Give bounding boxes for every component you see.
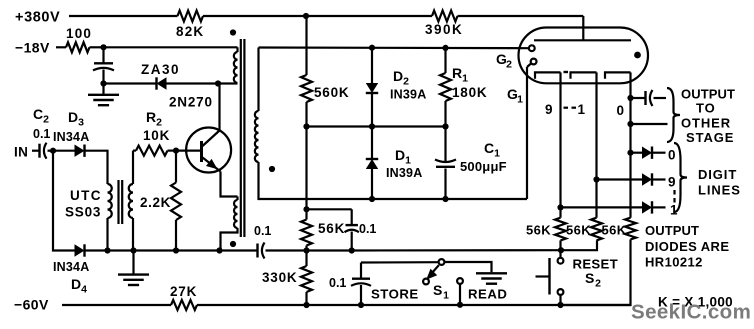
svg-text:LINES: LINES — [698, 183, 741, 198]
wire col0 seg3 — [629, 124, 631, 153]
wire 330K bottom lead — [305, 292, 307, 305]
svg-text:2: 2 — [403, 76, 409, 88]
core T1 line2 — [243, 39, 245, 237]
node digit1 junction — [557, 204, 563, 210]
svg-text:2: 2 — [156, 117, 162, 129]
svg-text:HR10212: HR10212 — [645, 255, 703, 270]
node cap/ground junction — [100, 80, 106, 86]
node 56K1 bus junction — [558, 247, 564, 253]
svg-text:1: 1 — [443, 290, 449, 302]
svg-text:D: D — [71, 276, 81, 292]
label coupling cap 0.1 — [254, 224, 271, 238]
wire node to winding — [218, 82, 238, 84]
label K equals — [658, 295, 733, 310]
wire 2.2K to bus — [175, 220, 177, 251]
wire block cap stem bottom — [351, 232, 353, 251]
svg-text:330K: 330K — [262, 270, 297, 285]
watermark SeekIC.com — [631, 301, 751, 324]
label digit 1 — [670, 203, 678, 218]
svg-text:2: 2 — [506, 59, 512, 71]
wire T1 emitter winding top — [236, 197, 238, 201]
label G2 — [496, 51, 512, 71]
label 56K#1 — [526, 223, 551, 238]
inductor UTC secondary — [129, 184, 133, 218]
cathode bracket 1 — [535, 72, 561, 78]
svg-text:R: R — [146, 109, 156, 125]
node -18V junction — [100, 44, 106, 50]
wire bus D4 to cap — [85, 249, 258, 251]
svg-text:100: 100 — [66, 26, 92, 41]
wire S1 to ground — [444, 262, 491, 272]
wire cap stem bottom — [102, 70, 104, 84]
label 180K — [452, 85, 487, 100]
wire output line2 — [631, 123, 668, 125]
wire cathode column 9 — [559, 72, 561, 207]
label cathode dashes — [564, 107, 577, 109]
node digit0 junction — [627, 150, 633, 156]
switch S2 actuator bar — [548, 258, 550, 295]
diode ZA30 — [157, 77, 167, 89]
svg-text:1: 1 — [462, 73, 468, 85]
resistor 330K — [301, 266, 312, 292]
wire -60V lead — [62, 304, 171, 306]
node collector junction — [215, 80, 221, 86]
svg-text:S: S — [585, 270, 594, 286]
wire T1 left-top winding lead — [236, 47, 238, 52]
wire 100 to node — [90, 46, 104, 48]
wire Q1 base lead — [176, 150, 202, 152]
wire anode lead — [582, 16, 584, 40]
label STAGE — [686, 130, 734, 145]
wire digit9 row right — [653, 178, 666, 180]
tube envelope — [519, 28, 649, 84]
svg-text:IN39A: IN39A — [390, 88, 426, 102]
phasing dot T1 top — [230, 29, 236, 35]
label 56K block value — [318, 221, 345, 236]
wire digit0 row — [631, 152, 643, 154]
label C2 value 0.1 — [33, 127, 50, 141]
label R2 — [146, 109, 162, 129]
svg-text:1: 1 — [578, 102, 586, 117]
svg-text:OTHER: OTHER — [681, 116, 731, 131]
wire collector up — [218, 84, 220, 131]
svg-text:2N270: 2N270 — [169, 95, 213, 110]
resistor 56K#3 — [625, 218, 636, 240]
node base junction — [173, 148, 179, 154]
wire ground2 stem — [132, 251, 134, 275]
diode D4 IN34A — [75, 244, 85, 256]
node D1 low-bus junction — [369, 196, 375, 202]
label cathode 0 — [617, 103, 625, 118]
node 330K -60V junction — [303, 302, 309, 308]
contact S1 pivot — [439, 259, 445, 265]
wire node to D3 — [53, 150, 75, 152]
capacitor C1 500uuF — [435, 160, 456, 167]
resistor 2.2K — [171, 183, 181, 221]
label 27K value — [170, 284, 197, 299]
svg-text:56K: 56K — [566, 223, 591, 238]
wire col0 to 56K3 — [629, 153, 631, 218]
svg-text:1: 1 — [405, 155, 411, 167]
wire 560K to bus — [305, 102, 307, 127]
resistor R2 10K — [136, 146, 168, 156]
wire mid bus — [307, 125, 446, 127]
label 100 value — [66, 26, 92, 41]
capacitor block 0.1 — [345, 225, 359, 232]
cathode bracket 3 — [605, 72, 631, 78]
label UTC — [70, 188, 102, 203]
label C1 value 500uuF — [460, 159, 507, 174]
wire col0 seg2 — [629, 98, 631, 124]
wire +380V rail — [69, 15, 178, 17]
wire input left column — [53, 151, 75, 251]
wire ground stem — [102, 84, 104, 95]
label digit 0 — [668, 148, 676, 163]
core UTC line1 — [117, 180, 119, 224]
node C1 low-bus junction — [442, 196, 448, 202]
wire block cap stem top — [351, 209, 353, 225]
resistor 56K block — [301, 220, 312, 246]
wire output cap lead — [631, 97, 646, 99]
wire low bus — [307, 198, 527, 200]
wire R1 to mid bus — [444, 101, 446, 127]
wire -60V rail — [197, 304, 631, 306]
node 560K mid-bus junction — [303, 123, 309, 129]
label C1 — [484, 140, 500, 160]
inductor T1 emitter winding — [234, 200, 237, 228]
wire cathode column 0 — [629, 72, 631, 98]
svg-text:R: R — [452, 65, 462, 81]
svg-text:0.1: 0.1 — [254, 224, 271, 238]
capacitor store 0.1 — [351, 279, 371, 286]
svg-text:OUTPUT: OUTPUT — [681, 87, 735, 102]
svg-text:D: D — [393, 68, 403, 84]
node reset -60V junction — [557, 302, 563, 308]
svg-text:+380V: +380V — [15, 10, 60, 26]
node input junction — [50, 148, 56, 154]
svg-text:56K: 56K — [318, 221, 345, 236]
capacitor output coupling — [646, 90, 653, 106]
wire T1 secondary bottom lead — [259, 162, 308, 199]
wire col1 to 56K2 — [595, 180, 597, 218]
contact S1 store — [423, 279, 429, 285]
svg-text:0.1: 0.1 — [359, 222, 376, 236]
cathode dash — [564, 71, 569, 73]
svg-text:82K: 82K — [176, 24, 204, 39]
wire D2 to mid bus — [371, 93, 373, 127]
node block cap bus junction — [349, 247, 355, 253]
diode digit1 — [642, 201, 652, 213]
label 560K value — [314, 85, 349, 100]
svg-text:C: C — [33, 106, 43, 122]
capacitor coupling 0.1 — [258, 243, 265, 259]
svg-text:0.1: 0.1 — [33, 127, 50, 141]
svg-text:STORE: STORE — [371, 287, 419, 302]
svg-text:2: 2 — [595, 278, 601, 290]
resistor 27K — [171, 300, 197, 310]
resistor R1 180K — [440, 73, 451, 101]
node UTC primary bus — [104, 247, 110, 253]
svg-text:IN: IN — [14, 145, 28, 160]
wire 560K top — [305, 16, 307, 75]
diode digit0 — [642, 147, 652, 159]
label S1 — [433, 282, 449, 302]
core UTC line2 — [121, 180, 123, 224]
label block cap 0.1 — [359, 222, 376, 236]
label D1 type IN39A — [386, 166, 422, 180]
label 56K#2 — [566, 223, 591, 238]
wire R2 right lead — [168, 150, 177, 152]
svg-text:STAGE: STAGE — [686, 130, 734, 145]
wire T1 secondary top lead — [257, 48, 259, 112]
svg-text:27K: 27K — [170, 284, 197, 299]
label READ — [468, 287, 507, 302]
wire D2 top lead — [371, 48, 373, 83]
wire reset stem bottom — [559, 295, 561, 305]
switch S1 arrow — [426, 269, 437, 280]
transistor Q1 base bar — [200, 141, 203, 162]
pin G1 contact — [531, 59, 537, 65]
transistor Q1 emitter — [203, 158, 221, 172]
label cathode 1 — [578, 102, 586, 117]
svg-text:D: D — [68, 109, 78, 125]
label ZA30 — [141, 62, 180, 77]
diode D3 IN34A — [75, 145, 85, 157]
wire D3 to corner — [85, 151, 108, 184]
svg-text:RESET: RESET — [573, 257, 618, 272]
svg-text:READ: READ — [468, 287, 507, 302]
svg-text:IN39A: IN39A — [386, 166, 422, 180]
label STORE — [371, 287, 419, 302]
wire emitter down — [221, 172, 238, 197]
wire block top — [307, 208, 352, 210]
transistor Q1 emitter arrow — [206, 159, 218, 169]
svg-text:0: 0 — [617, 103, 625, 118]
wire bus cap to 330K — [266, 249, 307, 251]
phasing dot T1 bottom — [230, 241, 236, 247]
label 390K value — [425, 22, 463, 37]
label S2 — [585, 270, 601, 290]
wire col9 to 56K1 — [559, 207, 561, 217]
label R1 — [452, 65, 468, 85]
svg-text:10K: 10K — [143, 128, 170, 143]
wire R1 top lead — [444, 48, 446, 73]
label cathode 9 — [545, 102, 553, 117]
svg-text:IN34A: IN34A — [53, 260, 89, 274]
svg-text:SeekIC.com: SeekIC.com — [631, 301, 751, 324]
wire 390K to anode corner — [458, 15, 584, 17]
wire bus to 56K#2 — [561, 240, 597, 250]
wire digit0 row right — [653, 152, 666, 154]
svg-text:9: 9 — [668, 175, 676, 190]
core T1 line1 — [240, 39, 242, 237]
svg-text:D: D — [395, 147, 405, 163]
wire store branch top — [361, 261, 439, 263]
svg-text:2: 2 — [43, 114, 49, 126]
resistor 560K — [301, 75, 312, 102]
node read -60V junction — [457, 302, 463, 308]
node R1 top junction — [442, 45, 448, 51]
label OTHER — [681, 116, 731, 131]
wire T1 emitter winding bottom — [221, 228, 238, 251]
switch S2 actuator lever — [536, 275, 550, 277]
svg-text:4: 4 — [81, 284, 87, 296]
node +380V/560K junction — [303, 13, 309, 19]
label -60V — [14, 297, 49, 313]
svg-text:−18V: −18V — [15, 40, 50, 56]
svg-text:500μμF: 500μμF — [460, 159, 507, 174]
svg-text:SS03: SS03 — [65, 205, 101, 220]
wire -18V lead — [56, 46, 66, 48]
node emitter bus junction — [216, 247, 222, 253]
svg-text:UTC: UTC — [70, 188, 102, 203]
diode D2 IN39A — [366, 83, 378, 93]
node D2 top junction — [369, 45, 375, 51]
capacitor bypass at -18V — [93, 63, 114, 70]
node 56K block corner — [303, 206, 309, 212]
ground G1a — [88, 95, 119, 105]
svg-text:ZA30: ZA30 — [141, 62, 180, 77]
label D3 type IN34A — [53, 130, 89, 144]
svg-text:56K: 56K — [526, 223, 551, 238]
resistor 82K — [178, 11, 204, 22]
label C2 — [33, 106, 49, 126]
node 330K top junction — [303, 247, 309, 253]
ground G3a at S1 — [476, 273, 507, 283]
svg-text:S: S — [433, 282, 442, 298]
node output cap junction — [627, 95, 633, 101]
svg-text:560K: 560K — [314, 85, 349, 100]
transistor Q1 body — [186, 128, 231, 173]
label 2.2K value — [140, 195, 171, 210]
label +380V — [15, 10, 60, 26]
resistor 56K#1 — [555, 218, 566, 241]
label -18V — [15, 40, 50, 56]
label D4 — [71, 276, 87, 296]
svg-text:1: 1 — [494, 148, 500, 160]
svg-text:180K: 180K — [452, 85, 487, 100]
label HR10212 line3 — [645, 255, 703, 270]
label RESET — [573, 257, 618, 272]
diode D1 IN39A — [366, 159, 378, 169]
wire C2 to node — [48, 150, 54, 152]
diode digit9 — [642, 173, 652, 185]
svg-text:0: 0 — [668, 148, 676, 163]
svg-text:0.1: 0.1 — [329, 276, 346, 290]
svg-text:56K: 56K — [602, 223, 627, 238]
label DIODES ARE line2 — [645, 239, 729, 254]
wire C1 stem top — [444, 127, 446, 163]
transistor Q1 collector — [203, 131, 220, 147]
wire cap stem top — [102, 47, 104, 63]
contact reset top — [558, 258, 564, 264]
label LINES — [698, 183, 741, 198]
label store cap 0.1 — [329, 276, 346, 290]
contact reset bottom — [558, 289, 564, 295]
svg-text:9: 9 — [545, 102, 553, 117]
label digit ellipsis — [673, 190, 675, 203]
label G1 — [507, 86, 523, 106]
wire output cap right — [654, 97, 667, 99]
wire read stem — [459, 284, 461, 305]
label 82K value — [176, 24, 204, 39]
svg-text:−60V: −60V — [14, 297, 49, 313]
label TO — [696, 101, 716, 116]
node 2.2K bus junction — [173, 247, 179, 253]
wire +380V rail to 390K — [203, 15, 432, 17]
pin G2 contact — [529, 45, 535, 51]
wire bus 330K to 0.1 — [307, 249, 352, 251]
cathode bracket 2 — [571, 72, 597, 78]
inductor T1 primary-feedback winding — [234, 52, 238, 83]
resistor 56K#2 — [591, 218, 602, 241]
wire node to ZA30 — [104, 82, 157, 84]
svg-text:TO: TO — [696, 101, 716, 116]
wire UTC secondary top — [132, 151, 134, 184]
inductor T1 secondary winding — [255, 111, 259, 162]
wire 56K1 to bus — [559, 240, 561, 250]
contact READ — [457, 278, 463, 284]
svg-text:390K: 390K — [425, 22, 463, 37]
ground G2a near UTC — [118, 275, 149, 285]
wire block left lead — [305, 209, 307, 219]
svg-text:IN34A: IN34A — [53, 130, 89, 144]
node store cap -60V junction — [358, 302, 364, 308]
label OUTPUT — [681, 87, 735, 102]
wire reset stem top — [559, 250, 561, 258]
svg-text:OUTPUT: OUTPUT — [645, 223, 699, 238]
node UTC secondary bus — [130, 247, 136, 253]
wire 330K top lead — [305, 251, 307, 267]
capacitor C2 input — [40, 143, 47, 159]
tube anode plate — [534, 39, 631, 41]
wire UTC secondary bottom — [132, 218, 134, 251]
wire store cap stem bottom — [360, 285, 362, 305]
wire 560K column down — [305, 127, 307, 210]
label SS03 — [65, 205, 101, 220]
wire IN lead — [32, 150, 39, 152]
label D2 type IN39A — [390, 88, 426, 102]
brace digit lines — [674, 143, 687, 212]
wire C1 stem bottom — [444, 169, 446, 200]
node R1 mid-bus junction — [442, 123, 448, 129]
wire D1 top lead — [371, 127, 373, 160]
wire ZA30 to node — [167, 82, 219, 84]
node digit9 junction — [593, 176, 599, 182]
wire G1 elbow — [527, 64, 531, 68]
resistor 100 — [66, 42, 90, 52]
label 2N270 — [169, 95, 213, 110]
label D3 — [68, 109, 84, 129]
wire digit1 row — [561, 206, 643, 208]
node output line2 junction — [627, 121, 633, 127]
label D1 — [395, 147, 411, 167]
svg-text:2.2K: 2.2K — [140, 195, 171, 210]
label IN — [14, 145, 28, 160]
brace output — [667, 88, 680, 142]
label D2 — [393, 68, 409, 88]
svg-text:DIGIT: DIGIT — [698, 167, 737, 182]
label DIGIT — [698, 167, 737, 182]
label 56K#3 — [602, 223, 627, 238]
wire R2 left lead — [133, 150, 136, 152]
tube indicator dot — [634, 52, 641, 59]
label 330K value — [262, 270, 297, 285]
wire 56K3 to -60V — [561, 239, 631, 305]
inductor UTC primary — [108, 184, 112, 218]
wire G1 column — [526, 67, 528, 199]
label 10K — [143, 128, 170, 143]
